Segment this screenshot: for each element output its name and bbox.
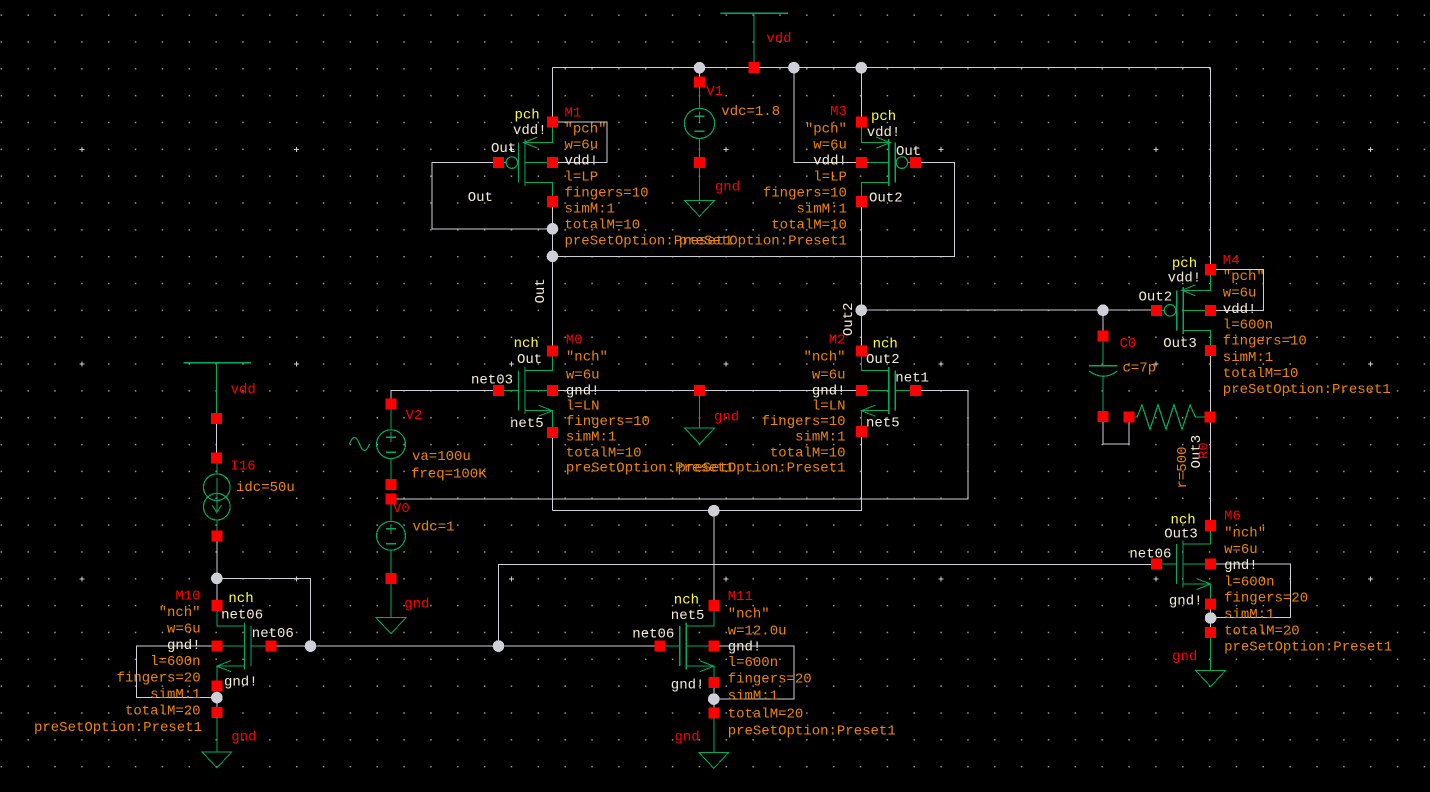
junction net06 branch [493, 640, 505, 652]
I16 pins [211, 453, 222, 542]
svg-text:net5: net5 [510, 416, 544, 432]
junction M11 source-gnd [708, 693, 720, 705]
C0 pins [1098, 330, 1109, 422]
ground below M11 [699, 707, 729, 768]
svg-text:net06: net06 [252, 626, 294, 642]
vdd pin on rail [748, 62, 759, 73]
svg-text:w=6u: w=6u [1223, 286, 1257, 302]
svg-text:w=6u: w=6u [566, 368, 600, 384]
svg-text:"nch": "nch" [1224, 526, 1266, 542]
svg-text:vdd!: vdd! [1168, 271, 1202, 287]
svg-text:l=600n: l=600n [1224, 574, 1274, 590]
svg-text:gnd: gnd [675, 729, 700, 745]
junction Out2-C0 [1097, 304, 1109, 316]
svg-text:c=7p: c=7p [1123, 361, 1157, 377]
svg-text:vdc=1.8: vdc=1.8 [721, 104, 780, 120]
svg-text:l=LN: l=LN [566, 399, 600, 415]
wire node Out2 to M4 gate [861, 309, 1156, 311]
junction net5-M11 [708, 505, 720, 517]
svg-text:"pch": "pch" [1223, 269, 1265, 285]
M11 drain/source/bulk/gate pins [654, 600, 719, 688]
svg-text:fingers=20: fingers=20 [728, 672, 812, 688]
svg-text:pch: pch [515, 108, 540, 124]
wire M0 source drop [552, 433, 554, 511]
svg-text:vdd!: vdd! [813, 154, 847, 170]
ground for M0/M2 bulk [694, 385, 705, 396]
ground below V1 [685, 167, 715, 216]
svg-text:nch: nch [873, 336, 898, 352]
svg-text:gnd!: gnd! [224, 674, 258, 690]
svg-text:gnd!: gnd! [812, 384, 846, 400]
svg-text:"nch": "nch" [803, 350, 845, 366]
svg-text:net5: net5 [671, 608, 705, 624]
wire M10 source to gnd [216, 686, 218, 712]
svg-text:Out: Out [491, 141, 516, 157]
svg-text:M10: M10 [175, 589, 200, 605]
svg-text:l=LP: l=LP [813, 170, 847, 186]
svg-text:l=LN: l=LN [812, 399, 846, 415]
wire M11 bulk bracket [714, 646, 794, 699]
svg-text:fingers=10: fingers=10 [566, 414, 650, 430]
wire node net5 tail [553, 431, 862, 510]
svg-text:R0: R0 [1197, 442, 1213, 459]
svg-text:Out2: Out2 [841, 302, 857, 336]
voltage source V1 [684, 87, 714, 158]
vdd symbol top [721, 13, 788, 63]
wire M10 gate-drain loop [217, 578, 311, 646]
ground below M6 [1196, 627, 1226, 686]
wire M10 bulk bracket [136, 646, 217, 698]
svg-text:simM:1: simM:1 [796, 202, 846, 218]
svg-text:freq=100K: freq=100K [411, 467, 487, 483]
svg-text:Out2: Out2 [869, 190, 903, 206]
svg-text:fingers=20: fingers=20 [1224, 591, 1308, 607]
V1 pins [694, 77, 705, 168]
junction Out to M3 gate [547, 250, 559, 262]
junction M10 source-gnd [211, 692, 223, 704]
wire node net03: M0 gate to V2 [391, 391, 498, 404]
svg-text:totalM=20: totalM=20 [1224, 623, 1300, 639]
svg-text:w=6u: w=6u [167, 621, 201, 637]
labels V0 [393, 501, 455, 536]
svg-text:simM:1: simM:1 [566, 430, 616, 446]
svg-text:fingers=10: fingers=10 [761, 414, 845, 430]
svg-text:vdd!: vdd! [565, 154, 599, 170]
vdd symbol left [183, 363, 251, 414]
wire M11 drain riser [713, 511, 715, 606]
svg-text:"nch": "nch" [728, 607, 770, 623]
wire M1 source-bulk box [553, 122, 607, 163]
svg-text:preSetOption:Preset1: preSetOption:Preset1 [677, 461, 845, 477]
svg-text:gnd: gnd [714, 409, 739, 425]
svg-text:gnd!: gnd! [1224, 558, 1258, 574]
wire vdd top rail [553, 67, 1211, 69]
svg-text:net06: net06 [221, 608, 263, 624]
svg-text:w=12.0u: w=12.0u [728, 624, 787, 640]
svg-text:M3: M3 [830, 104, 847, 120]
svg-text:gnd!: gnd! [671, 678, 705, 694]
M4 drain/source/bulk/gate pins [1151, 264, 1216, 356]
vdd left pin [211, 413, 222, 424]
labels M4 [1139, 253, 1391, 398]
wire M4 source drop [1210, 68, 1212, 270]
voltage source V0 [377, 503, 406, 574]
svg-text:V2: V2 [406, 408, 423, 424]
transistor M1 [503, 127, 552, 197]
labels M2 [677, 333, 928, 477]
junction rail-M3 bulk [788, 62, 800, 74]
svg-text:C0: C0 [1120, 336, 1137, 352]
svg-text:net06: net06 [1129, 547, 1171, 563]
svg-text:simM:1: simM:1 [1223, 350, 1273, 366]
svg-text:nch: nch [674, 593, 699, 609]
svg-text:Out3: Out3 [1164, 527, 1198, 543]
svg-text:M4: M4 [1223, 253, 1240, 269]
svg-text:totalM=10: totalM=10 [565, 218, 641, 234]
wire node Out: M1 drain to M0 drain [552, 202, 554, 351]
svg-text:totalM=20: totalM=20 [125, 703, 201, 719]
V0 pins [386, 493, 397, 584]
capacitor C0 [1089, 341, 1118, 412]
resistor R0 [1134, 405, 1205, 430]
junction M10 drain [211, 573, 223, 585]
svg-text:M6: M6 [1224, 509, 1241, 525]
wire node net06 lower run [271, 645, 660, 647]
svg-text:gnd: gnd [715, 180, 740, 196]
wire node net1: V0 to M2 gate [396, 391, 968, 499]
svg-text:vdd!: vdd! [513, 123, 547, 139]
svg-text:gnd!: gnd! [566, 384, 600, 400]
svg-text:preSetOption:Preset1: preSetOption:Preset1 [1223, 382, 1391, 398]
M3 drain/source/bulk/gate pins [856, 116, 921, 207]
svg-text:"pch": "pch" [565, 122, 607, 138]
svg-text:preSetOption:Preset1: preSetOption:Preset1 [34, 720, 202, 736]
labels V2 [406, 408, 488, 483]
wire M3 bulk tie to rail [794, 68, 861, 163]
svg-text:simM:1: simM:1 [728, 689, 778, 705]
wire M6 bulk bracket [1211, 564, 1291, 618]
svg-text:l=600n: l=600n [150, 654, 200, 670]
R0 pins [1123, 412, 1215, 423]
M6 drain/source/bulk/gate pins [1151, 520, 1216, 610]
M2 drain/source/bulk/gate pins [856, 345, 921, 437]
labels C0 [1120, 336, 1157, 377]
svg-text:vdd!: vdd! [867, 125, 901, 141]
svg-text:Out3: Out3 [1163, 336, 1197, 352]
junction M6 source-gnd [1205, 612, 1217, 624]
svg-text:vdd: vdd [231, 382, 256, 398]
svg-text:w=6u: w=6u [812, 368, 846, 384]
transistor M2 [861, 356, 910, 427]
svg-text:w=6u: w=6u [813, 138, 847, 154]
voltage source V2 (sine) [350, 409, 406, 480]
transistor M6 [1161, 531, 1210, 600]
svg-text:vdd!: vdd! [1223, 302, 1257, 318]
M0 drain/source/bulk/gate pins [493, 346, 558, 439]
svg-text:l=LP: l=LP [565, 170, 599, 186]
labels R0 rotated [1175, 435, 1213, 489]
transistor M4 [1161, 274, 1210, 345]
svg-text:w=6u: w=6u [565, 138, 599, 154]
svg-text:M0: M0 [566, 333, 583, 349]
svg-text:M1: M1 [565, 106, 582, 122]
svg-text:w=6u: w=6u [1224, 542, 1258, 558]
svg-text:V0: V0 [393, 501, 410, 517]
svg-text:M2: M2 [829, 333, 846, 349]
svg-text:vdc=1: vdc=1 [413, 520, 455, 536]
wire M11 source to gnd [713, 683, 715, 713]
svg-text:nch: nch [228, 591, 253, 607]
svg-text:net03: net03 [471, 373, 513, 389]
labels M0 [471, 333, 734, 477]
wire node Out to M3 gate [553, 163, 955, 257]
wire V1 plus drop [699, 68, 701, 83]
svg-text:totalM=20: totalM=20 [728, 707, 804, 723]
labels M1 [468, 106, 733, 250]
junction Out2 [856, 304, 868, 316]
svg-text:net5: net5 [866, 415, 900, 431]
wire M1 source drop [552, 68, 554, 122]
labels M10 [34, 589, 294, 736]
wire vdd symbol to I16 [216, 419, 218, 458]
svg-text:gnd: gnd [1172, 649, 1197, 665]
svg-text:l=600n: l=600n [1223, 318, 1273, 334]
svg-text:totalM=10: totalM=10 [770, 446, 846, 462]
svg-text:preSetOption:Preset1: preSetOption:Preset1 [679, 234, 847, 250]
svg-text:Out: Out [896, 144, 921, 160]
svg-text:simM:1: simM:1 [1224, 607, 1274, 623]
M1 drain/source/bulk/gate pins [493, 116, 558, 207]
svg-text:V1: V1 [706, 84, 723, 100]
current source I16 [204, 463, 231, 532]
wire I16 to M10 drain [216, 536, 218, 606]
wire gnd! bulk M0-M2 [553, 390, 862, 392]
svg-text:"pch": "pch" [805, 122, 847, 138]
svg-text:Out: Out [468, 190, 493, 206]
wire Out2 to C0 [1102, 310, 1104, 336]
svg-text:Out: Out [517, 352, 542, 368]
svg-text:M11: M11 [728, 589, 753, 605]
svg-text:va=100u: va=100u [412, 449, 471, 465]
svg-text:fingers=10: fingers=10 [1223, 334, 1307, 350]
svg-text:Out: Out [533, 278, 549, 303]
labels M11 [632, 589, 895, 740]
junction net06 at M10 [305, 640, 317, 652]
svg-text:totalM=10: totalM=10 [566, 446, 642, 462]
transistor M0 [503, 356, 552, 428]
svg-text:simM:1: simM:1 [795, 430, 845, 446]
junction rail-V1 [694, 62, 706, 74]
transistor M11 [664, 611, 713, 678]
svg-text:l=600n: l=600n [728, 655, 778, 671]
svg-text:preSetOption:Preset1: preSetOption:Preset1 [1224, 640, 1392, 656]
junction Out gate loop [547, 223, 559, 235]
labels V1 [706, 84, 780, 120]
svg-text:gnd: gnd [231, 730, 256, 746]
svg-text:pch: pch [871, 109, 896, 125]
svg-text:fingers=10: fingers=10 [565, 186, 649, 202]
svg-text:Out2: Out2 [866, 352, 900, 368]
wire node Out2: M3 drain to M2 drain [860, 202, 862, 351]
svg-text:fingers=20: fingers=20 [117, 671, 201, 687]
svg-text:totalM=10: totalM=10 [1223, 366, 1299, 382]
wire node Out3: M4 drain to M6 drain [1210, 351, 1212, 526]
svg-text:vdd: vdd [766, 31, 791, 47]
svg-text:preSetOption:Preset1: preSetOption:Preset1 [728, 724, 896, 740]
svg-text:fingers=10: fingers=10 [763, 186, 847, 202]
svg-text:net1: net1 [895, 370, 929, 386]
V2 pins [386, 398, 397, 490]
svg-text:nch: nch [514, 336, 539, 352]
svg-text:simM:1: simM:1 [565, 202, 615, 218]
junction rail-M3 source [856, 62, 868, 74]
wire M1 gate-drain loop [432, 163, 553, 229]
svg-text:gnd!: gnd! [1169, 594, 1203, 610]
svg-text:gnd!: gnd! [167, 638, 201, 654]
svg-text:totalM=10: totalM=10 [771, 218, 847, 234]
transistor M3 [861, 127, 910, 197]
svg-text:net06: net06 [632, 627, 674, 643]
svg-text:Out2: Out2 [1139, 290, 1173, 306]
svg-text:idc=50u: idc=50u [236, 480, 295, 496]
svg-text:"nch": "nch" [159, 605, 201, 621]
svg-text:gnd: gnd [404, 597, 429, 613]
wire M3 source drop [860, 68, 862, 122]
svg-text:"nch": "nch" [566, 350, 608, 366]
labels M6 [1129, 509, 1392, 656]
ground below V0 [376, 583, 406, 634]
wire M4 source-bulk box [1211, 269, 1264, 310]
ground below M10 [202, 707, 232, 768]
svg-text:I16: I16 [231, 459, 256, 475]
labels M3 [679, 104, 921, 249]
wire M6 source to gnd [1210, 604, 1212, 632]
wire node net06 riser and run to M6 gate [499, 564, 1157, 646]
transistor M10 [217, 610, 266, 681]
svg-text:simM:1: simM:1 [150, 687, 200, 703]
svg-text:gnd!: gnd! [728, 640, 762, 656]
M10 drain/source/bulk/gate pins [211, 600, 276, 692]
labels I16 [231, 459, 295, 497]
wire C0 to R0 [1103, 417, 1129, 445]
